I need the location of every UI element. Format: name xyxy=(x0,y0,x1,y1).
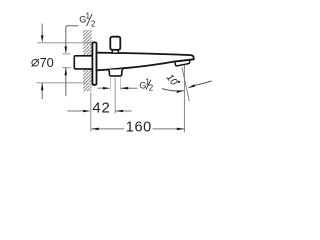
svg-text:2: 2 xyxy=(91,20,96,29)
svg-text:70: 70 xyxy=(40,55,54,70)
svg-text:42: 42 xyxy=(92,99,110,116)
svg-text:160: 160 xyxy=(126,119,152,135)
svg-text:2: 2 xyxy=(149,84,154,93)
svg-text:10: 10 xyxy=(164,72,180,88)
